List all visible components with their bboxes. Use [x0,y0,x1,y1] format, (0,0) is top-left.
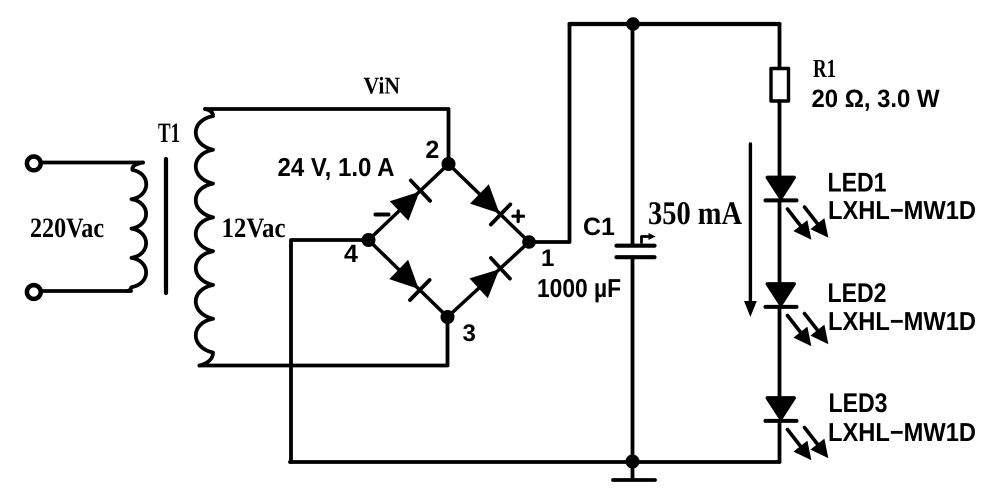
wire bottom rail [290,460,780,464]
wire capacitor branch upper [631,24,635,244]
plus sign at node 1 [513,211,524,222]
LED3 light arrows [788,428,826,458]
diode D1 cathode bar [411,181,430,201]
wire node 1 to riser [529,24,570,242]
LED3 cathode bar [766,419,797,423]
svg-text:350 mA: 350 mA [648,196,742,232]
minus sign at diode D1 [376,213,389,217]
LED2 cathode bar [766,305,797,309]
node 2 junction dot [442,157,456,171]
LED2 light arrows [788,314,826,344]
wire top rail [570,22,780,26]
diode D2 (2 to 1) triangle [470,184,500,213]
svg-text:ViN: ViN [364,74,401,100]
svg-text:4: 4 [344,240,358,268]
transformer core [164,159,168,293]
350 mA arrow line [749,144,752,303]
diode D1 (4 to 2) triangle [390,192,420,221]
LED2 triangle [768,284,795,305]
svg-text:LXHL−MW1D: LXHL−MW1D [828,417,976,447]
svg-text:T1: T1 [158,118,180,149]
svg-text:LXHL−MW1D: LXHL−MW1D [828,306,976,336]
wire ViN rail to node 2 [205,109,449,158]
wire secondary bottom to node 3 [200,317,448,366]
350 mA arrow head [744,301,757,317]
svg-text:12Vac: 12Vac [222,213,286,244]
node 1 junction dot [522,235,536,249]
capacitor C1 bottom plate [617,255,655,259]
ground stub [631,462,635,478]
wire resistor to LED1 [778,101,782,178]
svg-text:20 Ω, 3.0 W: 20 Ω, 3.0 W [812,85,940,113]
transformer T1 secondary winding [196,109,213,366]
wire capacitor branch lower [631,257,635,461]
junction dot top rail [626,17,640,31]
wire LED1 to LED2 [778,201,782,284]
svg-text:LED2: LED2 [828,278,887,308]
bridge edge 4-3 [369,240,448,317]
bridge edge 4-2 [369,164,449,240]
svg-text:1000 µF: 1000 µF [537,273,621,303]
terminal bottom-left circle [27,285,41,299]
LED3 triangle [768,398,795,419]
svg-text:LED1: LED1 [828,168,887,198]
diode D4 cathode bar [491,258,510,279]
LED1 cathode bar [766,198,797,202]
diode D2 cathode bar [491,204,510,224]
resistor R1 body [771,69,789,102]
LED1 triangle [768,178,795,199]
wire resistor branch [778,24,782,69]
capacitor hook arrow head [649,233,656,240]
capacitor polarity hook arrow [642,237,651,243]
svg-text:3: 3 [463,320,476,347]
svg-text:24 V, 1.0 A: 24 V, 1.0 A [278,152,395,182]
svg-text:R1: R1 [813,54,836,83]
svg-text:220Vac: 220Vac [30,213,104,244]
capacitor C1 top plate [617,244,655,248]
terminal top-left circle [27,157,41,171]
svg-text:2: 2 [425,136,439,164]
LED1 light arrows [788,207,826,237]
diode D4 (3 to 1) triangle [470,269,500,298]
bridge edge 2-1 [449,164,530,242]
svg-text:LED3: LED3 [829,388,888,418]
wire LED3 to bottom rail [778,422,782,462]
wire LED2 to LED3 [778,308,782,398]
svg-text:LXHL−MW1D: LXHL−MW1D [828,195,976,225]
wire 220Vac bottom lead [41,289,131,293]
junction dot bottom rail [626,455,640,469]
wire node 4 to bottom-left riser [291,240,369,462]
ground bar [613,478,655,482]
node 3 junction dot [441,310,455,324]
bridge edge 3-1 [448,242,530,317]
wire 220Vac top lead [41,161,143,165]
diode D3 cathode bar [410,280,430,300]
node 4 junction dot [362,233,376,247]
transformer T1 primary winding [127,163,146,292]
svg-text:1: 1 [541,245,554,272]
svg-text:C1: C1 [583,213,615,241]
diode D3 (4 to 3) triangle [389,260,418,289]
